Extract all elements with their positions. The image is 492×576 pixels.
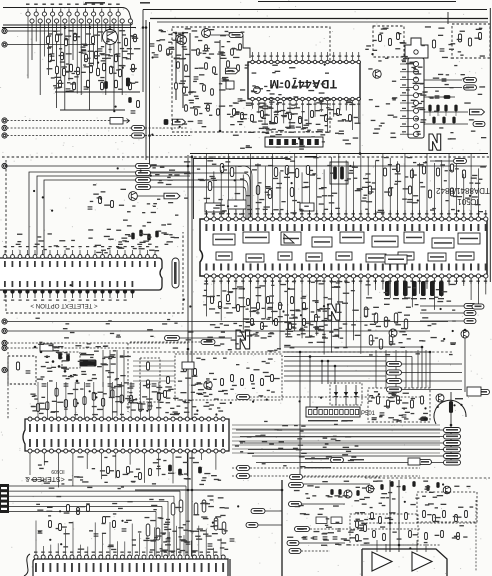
filter X301 body	[405, 38, 428, 58]
IC201 top pins	[251, 52, 361, 64]
terminal J2	[2, 42, 7, 47]
wire vertical bus B	[191, 155, 193, 557]
IC301 bottom pins	[3, 290, 134, 298]
transistor Q504	[461, 330, 469, 338]
resistor group R310-R312	[458, 33, 481, 47]
wire IC801 right edge	[229, 559, 231, 576]
capacitor C310	[442, 78, 447, 80]
capacitor group C101-C106	[50, 49, 121, 91]
wire step line	[243, 35, 250, 58]
label pill right SCP	[454, 158, 467, 163]
wire row 1	[424, 79, 462, 81]
wire bus right bends down	[300, 347, 430, 475]
wire dashed bus SCL	[7, 135, 131, 137]
label pill right edge G2	[477, 389, 490, 394]
wires IF drops to IC pins	[207, 154, 479, 219]
wires from P601	[9, 486, 186, 512]
resistor group R201-R210	[233, 109, 352, 124]
IC601 internal pin ticks	[29, 424, 224, 447]
labels top components	[152, 28, 245, 59]
IC501 internal function blocks	[213, 232, 480, 262]
label pill right 2	[464, 310, 476, 315]
label box with arrow	[110, 118, 123, 125]
wire outer enclosure top	[143, 9, 487, 11]
wire right edge drop	[464, 330, 466, 392]
crystal X501	[330, 162, 348, 184]
IC201 bottom pins	[251, 97, 361, 133]
resistor group chroma box	[184, 365, 274, 386]
wire yoke bus	[232, 425, 440, 453]
test point TP301	[172, 258, 179, 288]
wire row 5	[424, 123, 468, 125]
resistor group below IC left	[211, 295, 318, 330]
delay line DL601	[80, 360, 96, 366]
shield dashed box vertical out	[368, 388, 430, 422]
resistor group mid-left gap	[164, 377, 170, 398]
wires from J10-J13	[7, 322, 448, 349]
wires IC501 bottom drops mid	[280, 278, 361, 355]
labels AV area	[37, 345, 131, 380]
wire dashed SCL cont	[145, 135, 192, 137]
wire row 2	[424, 87, 462, 89]
wire bottom rail 2	[60, 109, 125, 111]
terminal J3	[2, 118, 7, 123]
terminal J14	[2, 367, 7, 372]
capacitor C602 dark	[59, 353, 62, 359]
capacitor group mid-bottom-left	[38, 529, 127, 536]
wire dashed SDA cont	[145, 127, 188, 129]
IC601 top pins	[28, 417, 225, 421]
resistor R401	[99, 197, 102, 204]
resistor forest above IC601	[36, 382, 160, 419]
small box pin33 label	[385, 255, 407, 264]
wire x448 drop	[447, 12, 449, 24]
wire dashed bus 1	[7, 120, 110, 122]
wires IC501 bottom drops right	[368, 278, 486, 310]
wire row 3	[424, 96, 455, 98]
connector P401 body	[408, 58, 424, 138]
capacitor C603 dark	[67, 355, 70, 361]
wire dashed right 2	[232, 475, 420, 477]
capacitor group above IC801	[166, 539, 235, 546]
capacitor row C825	[303, 537, 338, 539]
label pill right 1	[464, 303, 476, 308]
transistor Q805	[344, 490, 352, 498]
transistor Q502	[389, 329, 397, 337]
labels above IC601	[30, 382, 225, 415]
IC601 bottom pins	[28, 449, 225, 453]
label pill arrow in	[226, 68, 239, 74]
connector CN101 pin number labels	[26, 2, 150, 5]
terminal J6	[2, 163, 7, 168]
wire top rail audio section	[135, 489, 283, 491]
labels vert out box	[368, 391, 428, 422]
labels right resistor bank	[364, 284, 456, 356]
op-amp IC601 body	[23, 419, 229, 451]
capacitor group C120-C125	[150, 44, 243, 123]
wire row 4	[424, 111, 468, 113]
resistor R611	[147, 380, 150, 388]
wire junction dots	[34, 26, 467, 546]
label pill SND2	[237, 473, 250, 478]
wire vertical V2	[398, 480, 400, 552]
shield dashed box IF section	[172, 27, 330, 132]
capacitor C601	[26, 370, 31, 372]
IC801 pin number labels	[34, 552, 217, 553]
wires from pills	[258, 484, 420, 551]
wire dashed bottom divider	[365, 477, 490, 479]
label pill group bottom mid	[246, 474, 310, 553]
op-amp A2	[412, 552, 432, 571]
wire dashed br 2	[362, 544, 440, 546]
wire long bus tuner	[7, 165, 487, 167]
resistor group R301-R303	[379, 33, 400, 46]
op-amp IC301 teletext body	[0, 258, 162, 290]
resistor R315	[432, 40, 435, 48]
wire dashed br 1	[362, 522, 477, 524]
wire inner enclosure top 1	[150, 18, 488, 20]
transistor Q103	[202, 29, 211, 38]
filter X301 pin	[414, 50, 418, 54]
svg-text:IC609: IC609	[51, 468, 65, 474]
yoke internal part	[449, 402, 452, 413]
wires to right pills	[420, 306, 464, 321]
op-amp IC501 TDA8841 body	[200, 219, 487, 276]
resistor group vert out	[377, 396, 424, 408]
label marks near H-SHIFT	[305, 458, 364, 468]
resistor R130	[137, 101, 140, 108]
capacitor C810	[380, 412, 385, 414]
labels top-right	[365, 26, 486, 139]
wire pill SCP	[430, 160, 453, 162]
label pill yoke stack	[444, 428, 461, 466]
wire left enclosure	[142, 10, 144, 93]
connector P401 pins	[400, 62, 419, 137]
connector CN101 pins row 1	[26, 9, 120, 17]
label pill right edge row	[472, 304, 484, 309]
dark part D201	[164, 120, 168, 125]
resistor R402	[111, 201, 114, 208]
diode group D501-D503	[334, 385, 358, 405]
transistor Q102	[176, 35, 185, 44]
labels below IC601	[31, 455, 221, 489]
wire dashed pill 397	[250, 396, 421, 398]
wires connector pin drops	[28, 16, 130, 110]
wire from J1	[7, 30, 60, 32]
shield dashed box drive	[350, 514, 418, 545]
transistor Q610	[204, 381, 212, 389]
wire Q401 to pill	[138, 195, 165, 197]
IC301 top pins	[3, 250, 157, 258]
wires IC501 bottom drops left	[207, 278, 273, 330]
transistor Q801	[366, 485, 374, 493]
diode D102	[105, 82, 108, 89]
resistor group above IC801	[146, 500, 226, 540]
wire yoke vertical	[450, 392, 452, 460]
wire bus arcs into IF	[243, 166, 252, 218]
capacitor group C820 dark	[331, 490, 360, 496]
labels IF dashed box	[179, 65, 329, 131]
shield dashed box bottom right	[417, 492, 477, 522]
svg-text:< TELETEXT OPTION >: < TELETEXT OPTION >	[30, 302, 98, 309]
wire bus left stubs	[133, 361, 175, 381]
shield dashed box diodes	[330, 383, 362, 405]
IC501 pin stubs	[207, 210, 486, 284]
wire pill 338	[180, 337, 233, 339]
signal arrow N1	[429, 134, 441, 150]
wire dashed divider	[2, 156, 489, 158]
resistor group drive	[356, 521, 367, 542]
connector CN101 body	[3, 8, 132, 26]
connector CN101 pins row 2	[30, 19, 133, 23]
IC801 pins	[34, 555, 225, 559]
labels bottom center	[294, 487, 367, 546]
wire component block bottom rail	[55, 91, 140, 93]
resistor column group right	[364, 307, 407, 349]
transistor Q803	[436, 394, 444, 402]
resistor R320	[444, 96, 450, 99]
label pill H-SHIFT	[331, 457, 344, 462]
label H 3.58	[305, 156, 317, 158]
IC501 pin number labels	[205, 213, 488, 282]
yoke label	[455, 398, 463, 399]
transistor Q401	[129, 192, 138, 201]
labels bottom right	[287, 480, 473, 545]
terminal J5	[2, 133, 7, 138]
wire nested bus 2	[37, 176, 190, 255]
wire inner enclosure top 2	[157, 21, 488, 23]
capacitor group above IC601	[42, 384, 157, 386]
shield dashed box left small	[8, 356, 36, 384]
capacitor C130 dark	[129, 98, 132, 103]
wires yoke lines left	[236, 430, 444, 463]
labels top-left block	[47, 30, 141, 92]
capacitor C311	[435, 95, 440, 97]
label pill group mid right	[387, 361, 463, 392]
wire connector bottom rail	[2, 27, 136, 29]
terminal J4	[2, 125, 7, 130]
label pill arrow AFT	[470, 109, 485, 115]
IC201 pin labels	[251, 56, 360, 57]
resistor group R321-R324	[429, 105, 458, 116]
shield dashed box AV section	[8, 343, 128, 420]
wire bus bundle RGB/sync	[284, 347, 430, 381]
wire thick vertical boundary	[281, 480, 283, 576]
resistor group below IC601	[107, 467, 152, 480]
label pill AGC	[473, 121, 485, 126]
transistor Q301	[373, 70, 381, 78]
wires drops to IC801	[36, 521, 221, 556]
labels teletext area	[88, 184, 179, 249]
capacitor group below IC601 dark	[169, 465, 202, 475]
capacitor C301	[440, 48, 445, 50]
small box focus	[467, 387, 481, 396]
capacitor C811	[402, 414, 407, 416]
shield dashed box tuner AGC	[373, 26, 404, 57]
transistor Q101	[103, 30, 118, 45]
resistor group R120-R128	[159, 44, 242, 116]
resistor group R405-R409	[132, 230, 159, 240]
wire top border	[258, 1, 456, 3]
label pill line 338	[165, 335, 180, 340]
wire bends to pill column	[146, 139, 151, 166]
wire nested bus 1	[29, 172, 190, 255]
label pill line 342	[201, 339, 215, 344]
label pill SDA	[132, 125, 145, 130]
shield dashed box narrow	[140, 358, 160, 402]
label pill group SCL/SDA/VT/AGC	[136, 163, 244, 189]
label pill arrow out	[173, 119, 186, 125]
label pill SND1	[237, 465, 250, 470]
IC801 brace	[24, 554, 30, 576]
labels above IC801 close	[132, 516, 228, 551]
label pill above IC601	[237, 394, 250, 399]
op-amp IC201 TDA4470-M body	[248, 62, 360, 99]
wire double vertical bus left	[145, 20, 147, 139]
label pill SCL	[132, 133, 145, 138]
IC301 pin labels	[4, 246, 150, 301]
resistor group R101-R112	[47, 33, 137, 90]
signal arrow N2	[328, 304, 340, 320]
audio amp block outline	[362, 549, 447, 576]
op-amp IC801 body	[33, 559, 228, 576]
terminal J1	[2, 28, 7, 33]
wires dashed box internal bus	[176, 33, 220, 131]
label pill CCB	[229, 32, 243, 37]
shield dashed box chroma	[175, 354, 282, 400]
connector P601 body	[0, 484, 9, 513]
wire section divider	[190, 153, 488, 155]
terminal group J10-J13	[2, 319, 7, 351]
transistor Q802	[443, 486, 451, 494]
wire vertical V1	[389, 480, 391, 552]
wires AV box drops to forest	[103, 350, 124, 416]
deflection yoke circle	[434, 400, 466, 424]
shield dashed box left small 2	[62, 352, 80, 368]
wire vertical bus A	[187, 155, 189, 557]
labels above IC801	[36, 495, 229, 551]
label pill SIF	[464, 85, 477, 90]
wires resistor bank drops	[376, 350, 426, 388]
resistor group R520-R529	[368, 164, 465, 198]
label pill H-DY	[419, 459, 432, 464]
small box K201	[226, 81, 234, 89]
label pill VIF	[464, 77, 477, 82]
wire Q202 pill	[211, 34, 230, 36]
wire pill 342	[130, 341, 201, 343]
resistor R610	[147, 362, 150, 370]
IC501 bottom pins	[204, 274, 488, 278]
resistor group mid-bottom-left	[49, 505, 116, 531]
labels P401	[409, 62, 427, 133]
IC201 bottom pin labels	[251, 104, 360, 105]
op-amp A1	[372, 552, 392, 571]
label pill arrow KEY	[164, 193, 180, 199]
wire dashed bus SDA	[7, 127, 131, 129]
transistor Q201	[177, 35, 186, 44]
label DL601	[80, 354, 94, 355]
wire dashed 352	[133, 351, 452, 353]
wire dashed right 1	[232, 467, 420, 469]
svg-text:TDA8841/8842: TDA8841/8842	[436, 186, 490, 195]
wire IF box edge	[194, 159, 291, 220]
IC201 notch	[254, 87, 261, 94]
wire dashed vertical br	[475, 500, 477, 572]
IC301 internal pin ticks	[4, 261, 156, 287]
labels right of IC601	[235, 420, 359, 467]
connector P501 labels below	[308, 420, 352, 421]
wires P601 bends down	[156, 486, 186, 557]
wire dashed from pill 477	[303, 476, 380, 478]
resistor group bottom right top	[381, 482, 440, 491]
connector pin strip P201	[265, 137, 323, 147]
IC801 pin ticks	[35, 563, 224, 572]
wire from J2	[7, 44, 95, 46]
small box group bias	[316, 517, 342, 524]
IC501 internal pin name ticks	[205, 224, 486, 271]
labels mid-left	[36, 318, 194, 349]
wire IC201 right drop	[359, 99, 361, 153]
IC501 top pins	[204, 217, 488, 221]
resistor R803	[421, 418, 428, 421]
labels IF band	[197, 156, 486, 214]
resistor group R325-R327	[433, 117, 456, 123]
labels below TDA4470	[229, 100, 361, 149]
diode D101	[126, 78, 129, 86]
wire nested bus 3	[44, 180, 190, 255]
resistor group IF R501-R516	[208, 164, 309, 199]
small box K601	[40, 344, 53, 351]
labels above IC301	[16, 232, 175, 253]
labels AV box	[41, 345, 124, 381]
labels left of IF	[150, 161, 190, 203]
capacitor C401	[88, 206, 93, 208]
connector P401 labels	[402, 61, 406, 132]
resistor group bottom right mid	[371, 511, 468, 541]
capacitor C131	[131, 110, 136, 112]
wires IC601 bottom drops	[30, 453, 216, 487]
labels mid cluster	[237, 302, 327, 343]
small box group IF	[205, 200, 314, 212]
labels chroma box	[178, 358, 280, 397]
filter group PIL dark parts	[384, 281, 444, 299]
connector P501 strip	[306, 407, 360, 417]
label pill right 3	[464, 318, 476, 323]
wires opamp verticals	[377, 540, 426, 552]
signal arrow N4	[236, 330, 250, 349]
shield dashed box TELETEXT OPTION	[6, 160, 183, 313]
labels below IC501	[203, 280, 361, 351]
wire right border	[489, 8, 491, 282]
shield dashed box SAW filter	[452, 24, 490, 58]
small box H-DY	[408, 458, 420, 465]
resistor R601	[16, 362, 19, 370]
small box chroma	[182, 362, 194, 369]
